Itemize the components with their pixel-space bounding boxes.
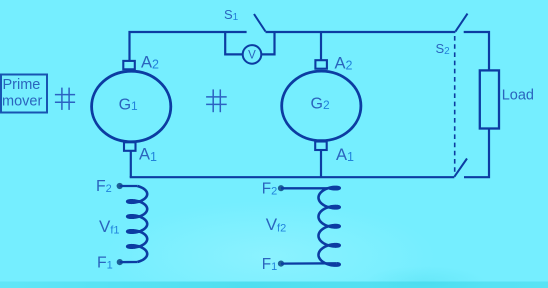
field F1 terminal right [278,261,284,267]
field leads right [281,188,337,263]
svg-text:Prime: Prime [3,77,41,93]
field coil Vf2 [319,187,340,266]
field F1 terminal left [117,259,123,265]
coupling symbol 2 [206,89,227,112]
switch S2 bottom blade [454,159,467,177]
top bus right of S1 [266,31,456,33]
G2 brush A2 [315,60,327,68]
wire G2 A1 down [320,150,322,178]
svg-text:V: V [248,50,256,62]
generator G1 [92,71,171,142]
switch S1 blade [254,14,266,32]
G1 brush A1 [124,142,136,151]
voltmeter loop [225,32,274,54]
field lead top left [120,185,137,187]
G1 brush A2 [123,61,135,69]
top right wire to load [464,32,489,70]
svg-text:mover: mover [2,94,42,110]
S2 mechanical link dashed [454,36,456,175]
voltmeter V circle [243,45,262,64]
switch S2 top blade [455,14,467,32]
svg-text:G2: G2 [311,96,330,113]
prime mover box [1,75,47,113]
field lead bottom left [120,261,137,263]
field F2 terminal right [278,185,284,191]
svg-text:Load: Load [502,87,534,103]
wire G1 A2 up and top bus left [130,32,247,61]
field F2 terminal left [117,183,123,189]
generator G2 [282,71,361,141]
bottom bus [131,176,455,177]
wire G1 A1 down [130,151,132,177]
svg-text:G1: G1 [119,97,138,114]
coupling symbol 1 [55,88,75,110]
load resistor [480,70,499,128]
field coil Vf1 [127,186,147,262]
wire below load [464,129,489,178]
wire G2 A2 drop [320,32,322,60]
G2 brush A1 [315,142,327,151]
